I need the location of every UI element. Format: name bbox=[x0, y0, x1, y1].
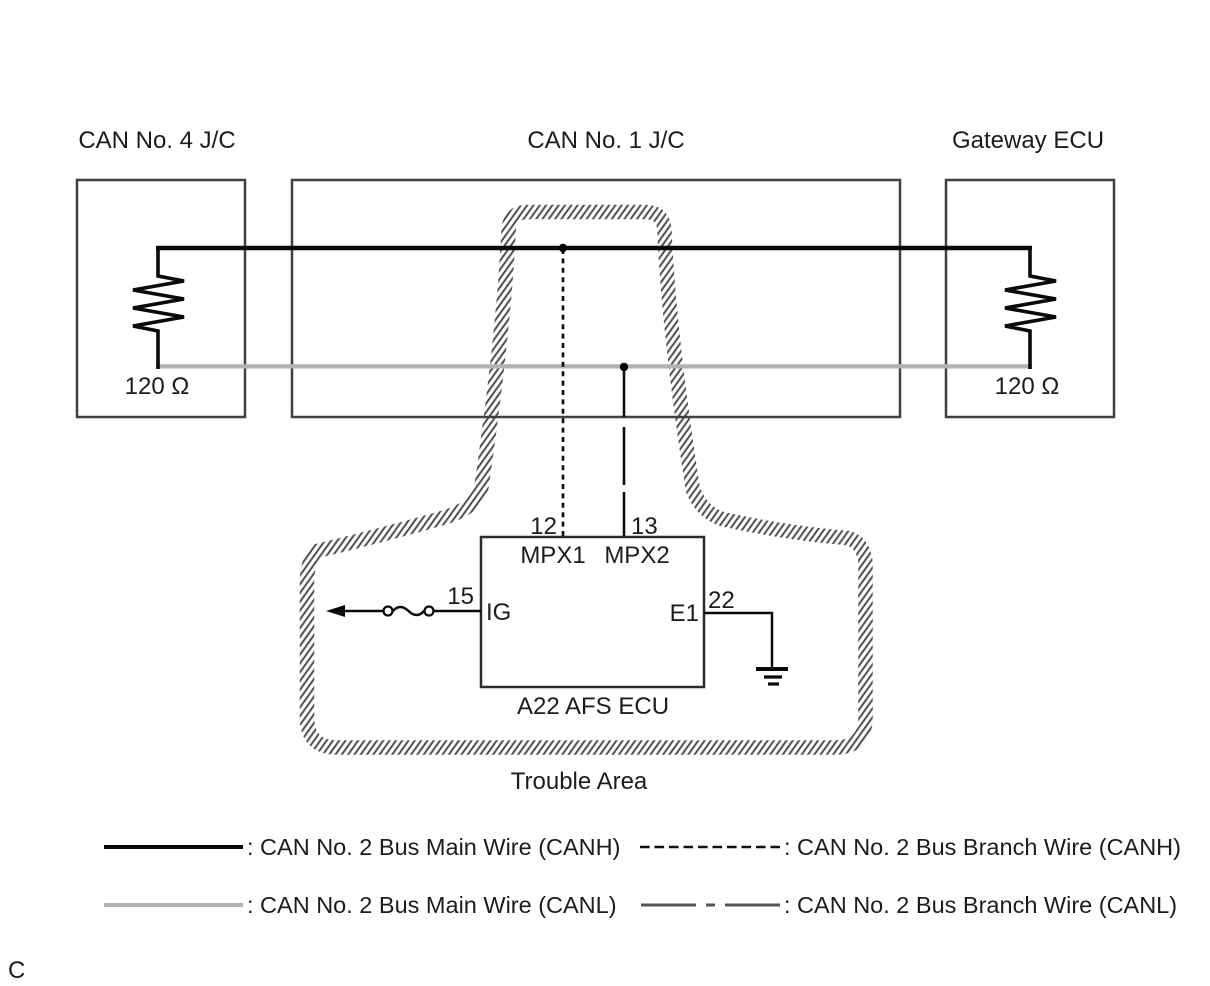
svg-text:MPX2: MPX2 bbox=[604, 542, 669, 569]
svg-text:13: 13 bbox=[631, 513, 658, 540]
svg-text:Trouble Area: Trouble Area bbox=[511, 768, 648, 795]
svg-text:C: C bbox=[8, 957, 25, 984]
svg-text:IG: IG bbox=[486, 599, 511, 626]
svg-text:A22 AFS ECU: A22 AFS ECU bbox=[517, 693, 669, 720]
svg-text:: CAN No. 2 Bus Main Wire (CAN: : CAN No. 2 Bus Main Wire (CANL) bbox=[247, 892, 617, 918]
svg-text:CAN No. 1 J/C: CAN No. 1 J/C bbox=[527, 127, 684, 154]
svg-text:120 Ω: 120 Ω bbox=[995, 373, 1060, 400]
svg-text:CAN No. 4 J/C: CAN No. 4 J/C bbox=[78, 127, 235, 154]
svg-text:: CAN No. 2 Bus Branch Wire (C: : CAN No. 2 Bus Branch Wire (CANH) bbox=[784, 834, 1181, 860]
svg-text:15: 15 bbox=[447, 583, 474, 610]
svg-text:22: 22 bbox=[708, 587, 735, 614]
svg-text:: CAN No. 2 Bus Main Wire (CAN: : CAN No. 2 Bus Main Wire (CANH) bbox=[247, 834, 620, 860]
svg-text:Gateway ECU: Gateway ECU bbox=[952, 127, 1104, 154]
svg-text:12: 12 bbox=[530, 513, 557, 540]
svg-text:120 Ω: 120 Ω bbox=[125, 373, 190, 400]
svg-text:: CAN No. 2 Bus Branch Wire (C: : CAN No. 2 Bus Branch Wire (CANL) bbox=[784, 892, 1177, 918]
svg-text:MPX1: MPX1 bbox=[520, 542, 585, 569]
svg-text:E1: E1 bbox=[670, 600, 699, 627]
